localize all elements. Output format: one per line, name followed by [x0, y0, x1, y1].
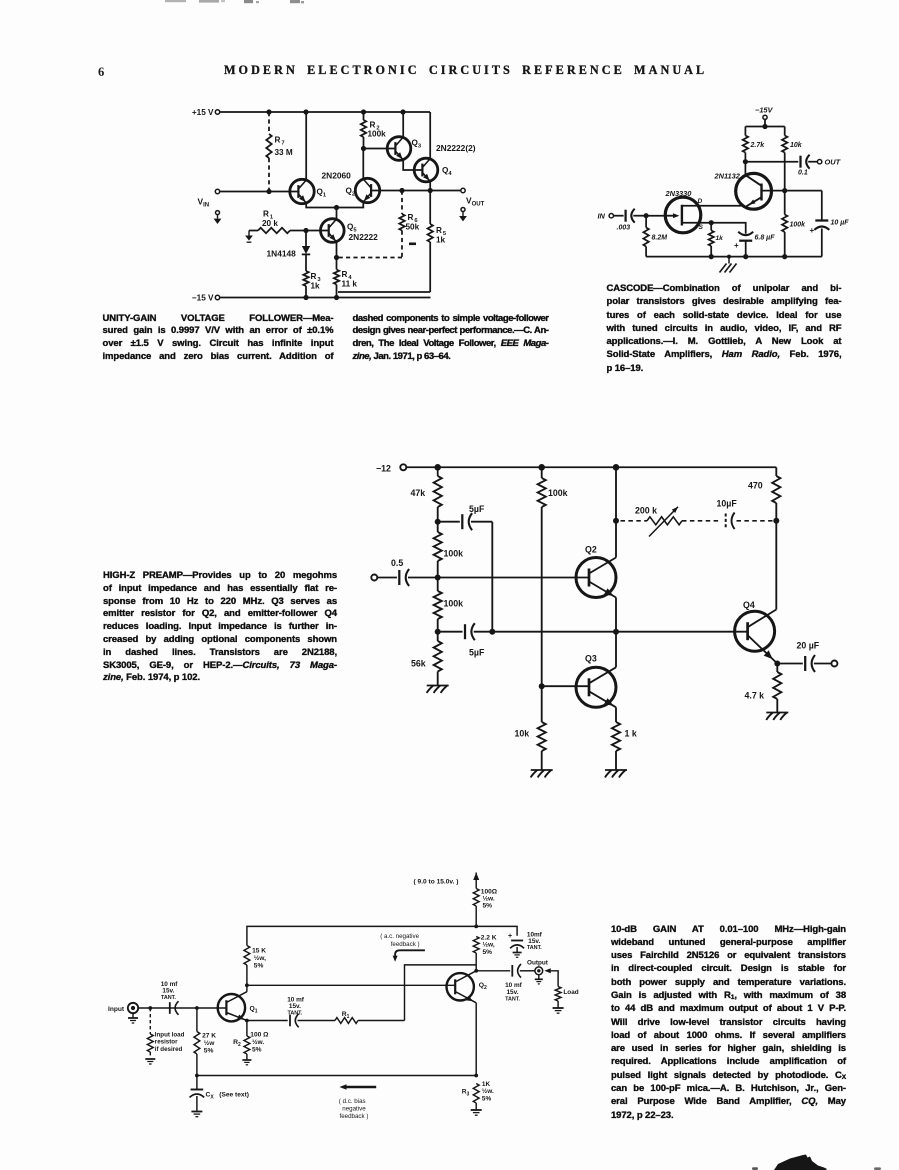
svg-text:100k: 100k	[548, 488, 568, 498]
svg-text:56k: 56k	[411, 659, 426, 669]
resistor 15K	[244, 946, 266, 986]
svg-text:R: R	[370, 121, 376, 130]
wire -12 top rail	[406, 466, 777, 468]
transistor Q4 preamp	[735, 610, 778, 664]
jack Input	[108, 1003, 138, 1013]
svg-text:Q4: Q4	[743, 600, 755, 610]
svg-text:1k: 1k	[436, 236, 446, 245]
wire 15K node down to Q1 collector	[246, 985, 248, 991]
svg-text:negative: negative	[342, 1105, 366, 1112]
wire ac feedback riser	[405, 965, 477, 1021]
svg-text:8.2M: 8.2M	[652, 235, 668, 242]
wire dashed R6 bottom to Q5 emitter	[337, 257, 403, 259]
svg-text:1k: 1k	[716, 235, 724, 242]
svg-text:470: 470	[748, 481, 763, 491]
svg-text:1N4148: 1N4148	[267, 249, 297, 259]
svg-text:TANT.: TANT.	[288, 1010, 303, 1016]
label -12 supply	[376, 464, 406, 474]
svg-text:2.2 K: 2.2 K	[481, 934, 497, 941]
svg-text:.003: .003	[617, 225, 631, 232]
svg-text:Load: Load	[563, 989, 578, 996]
svg-text:20 k: 20 k	[262, 219, 278, 228]
node base / 10k bottom	[782, 188, 787, 193]
resistor 100k upper divider	[434, 522, 464, 578]
ground reference below VOUT	[459, 208, 467, 222]
svg-text:10µF: 10µF	[717, 499, 738, 509]
node Q3 base	[539, 683, 545, 689]
wire Q2 collector to rail	[615, 467, 617, 521]
svg-text:5%: 5%	[483, 949, 493, 956]
svg-text:R: R	[342, 270, 348, 279]
resistor 470	[748, 467, 780, 521]
svg-text:TANT.: TANT.	[527, 945, 542, 951]
node divider top / 5uF	[435, 519, 441, 525]
svg-text:CX: CX	[206, 1091, 215, 1100]
svg-text:feedback ): feedback )	[340, 1113, 369, 1120]
wire Q4 emitter to output line	[429, 181, 431, 191]
wire 2N1132 base lead right	[762, 190, 785, 192]
svg-text:10 µF: 10 µF	[831, 220, 850, 227]
arrow into output jack	[544, 968, 558, 986]
wire Q4 collector to rail corner	[429, 112, 431, 159]
wire supply bus left	[247, 926, 476, 945]
wire collector node down to transistor	[744, 162, 746, 175]
wire R5 bottom to rail	[338, 291, 430, 293]
svg-text:Input: Input	[108, 1006, 125, 1013]
caption high-z preamp	[103, 570, 337, 685]
svg-text:Input load: Input load	[155, 1032, 185, 1039]
svg-text:S: S	[699, 224, 704, 231]
capacitor 6.8 uF	[734, 232, 775, 257]
svg-text:5%: 5%	[482, 1096, 492, 1103]
terminal VIN with label	[198, 189, 220, 208]
node collector / 2.7k bottom	[743, 159, 748, 164]
svg-text:R1: R1	[342, 1011, 350, 1020]
node Q1 collector rail	[303, 109, 308, 114]
svg-text:2N2222: 2N2222	[349, 232, 379, 242]
wire Q3 collector up to bus	[615, 632, 617, 668]
node 100k mid top	[538, 464, 545, 471]
svg-text:2N3330: 2N3330	[665, 189, 693, 198]
resistor 2.2K	[473, 934, 496, 971]
capacitor 10mf feedback	[247, 996, 335, 1027]
ground left of R1	[245, 231, 253, 243]
svg-text:100k: 100k	[444, 599, 464, 609]
wire +15V top rail	[220, 111, 430, 113]
ground under input jack	[128, 1013, 138, 1023]
node Q2 collector rail	[613, 464, 620, 471]
wire Q2 emitter down	[337, 203, 364, 208]
svg-text:Q2: Q2	[479, 982, 487, 991]
header title	[224, 63, 707, 78]
svg-text:100k: 100k	[368, 130, 387, 139]
svg-text:+: +	[734, 241, 739, 250]
svg-text:11 k: 11 k	[342, 280, 358, 289]
wire JFET source with label S	[682, 223, 711, 231]
wire Q2 emitter down to rail	[475, 1003, 477, 1076]
svg-text:100 Ω: 100 Ω	[250, 1031, 269, 1038]
svg-text:5µF: 5µF	[469, 504, 485, 514]
resistor R4 11k	[334, 258, 358, 298]
svg-text:½w.: ½w.	[482, 1087, 494, 1095]
wire JFET drain with label D	[682, 198, 742, 206]
wire Q1 emitter node	[245, 1019, 249, 1023]
svg-text:Output: Output	[527, 959, 549, 966]
svg-text:R: R	[311, 272, 317, 281]
caption unity-gain follower left column	[103, 313, 334, 364]
svg-text:20 µF: 20 µF	[797, 641, 820, 651]
ground under R2	[242, 1060, 251, 1065]
svg-text:(See text): (See text)	[219, 1091, 249, 1098]
capacitor 5uF lower	[438, 623, 493, 657]
svg-text:TANT.: TANT.	[505, 996, 520, 1002]
resistor R6 50k (dashed optional)	[399, 191, 419, 258]
resistor 8.2M	[643, 216, 667, 257]
svg-text:15v.: 15v.	[528, 938, 540, 945]
svg-text:( 9.0 to 15.0v. ): ( 9.0 to 15.0v. )	[414, 879, 459, 886]
ground under 10k	[531, 770, 553, 778]
svg-text:33 M: 33 M	[275, 148, 293, 157]
svg-text:D: D	[698, 198, 703, 205]
diode 1N4148	[267, 231, 311, 272]
node Q2 emitter bus	[613, 629, 619, 635]
terminal IN with label	[598, 211, 614, 220]
svg-text:4.7 k: 4.7 k	[745, 691, 765, 701]
svg-text:R: R	[408, 213, 414, 222]
resistor 47k	[411, 467, 442, 521]
resistor input load (dashed optional)	[145, 1008, 184, 1064]
resistor 10k	[515, 686, 546, 770]
svg-text:6.8 µF: 6.8 µF	[755, 235, 776, 242]
svg-text:Q3: Q3	[412, 139, 422, 150]
transistor Q1 (2N2060 half)	[290, 179, 314, 203]
capacitor 10mf bypass with ground	[508, 931, 543, 957]
wire base line to Q2	[247, 984, 455, 986]
node source / 1k	[709, 220, 714, 225]
transistor Q1 wideband	[218, 992, 247, 1022]
capacitor 10uF (dashed optional)	[682, 499, 773, 530]
capacitor 0.1 output	[798, 155, 817, 177]
svg-text:100k: 100k	[444, 549, 464, 559]
wire Q3 collector to rail	[402, 112, 404, 138]
node Q4 emitter	[774, 661, 780, 667]
label ac negative feedback with arrow	[380, 933, 425, 962]
svg-text:+: +	[508, 933, 512, 940]
svg-text:2.7k: 2.7k	[750, 142, 766, 149]
svg-text:5µF: 5µF	[469, 648, 485, 658]
page top scan marks	[165, 0, 304, 3]
svg-text:½w: ½w	[204, 1039, 215, 1047]
svg-text:2N1132: 2N1132	[714, 172, 741, 181]
resistor 10k	[782, 127, 803, 191]
ground under 4.7k	[766, 713, 788, 721]
wire -15V bottom rail	[220, 297, 431, 299]
svg-text:VIN: VIN	[198, 197, 210, 209]
node Q5 emitter / R4 / dashed	[334, 255, 339, 260]
node emitters join	[334, 205, 339, 210]
node R7 top	[266, 109, 271, 114]
svg-text:Q2: Q2	[346, 187, 356, 198]
ground under 1k	[605, 770, 627, 778]
node divider bottom	[435, 629, 441, 635]
node supply bus	[474, 925, 478, 929]
svg-text:if desired: if desired	[155, 1046, 183, 1053]
wire Q3 emitter to Q4 base	[403, 159, 422, 170]
node R2 top	[361, 109, 366, 114]
svg-text:5%: 5%	[254, 962, 264, 969]
ground under Load	[553, 1008, 564, 1013]
wire emitter bus to Q4 base	[492, 631, 748, 633]
svg-text:−15V: −15V	[755, 106, 774, 115]
svg-text:Q2: Q2	[585, 545, 597, 555]
ground under R3	[471, 1110, 482, 1115]
circuit 1 label +15 V supply	[192, 108, 220, 117]
wire cascode top rail	[745, 126, 784, 128]
svg-text:OUT: OUT	[825, 158, 842, 167]
svg-text:15v.: 15v.	[162, 988, 174, 995]
resistor R1 20k	[249, 210, 329, 234]
capacitor Cx with ground	[190, 1076, 249, 1117]
svg-text:½w.: ½w.	[252, 1038, 264, 1046]
svg-text:10k: 10k	[515, 729, 530, 739]
transistor Q3 preamp	[576, 667, 616, 707]
transistor JFET 2N3330	[665, 197, 701, 233]
svg-text:½w.: ½w.	[483, 895, 495, 903]
label -15 V supply	[192, 294, 220, 303]
capacitor 10mf output	[476, 964, 535, 1002]
svg-text:50k: 50k	[406, 223, 420, 232]
svg-text:R3: R3	[462, 1088, 470, 1097]
wire 5uF right leg down	[491, 522, 493, 632]
wire supply to rail	[764, 119, 766, 126]
resistor 100k lower divider	[434, 578, 464, 632]
transistor Q4 2N2222	[414, 158, 438, 182]
resistor 100k middle	[538, 467, 568, 686]
node 1k bottom	[709, 254, 714, 259]
node R2 bottom / Q3 base	[361, 146, 366, 151]
terminal input 0.5 capacitor	[371, 558, 589, 586]
wire input line	[138, 1007, 226, 1009]
svg-text:0.5: 0.5	[391, 558, 403, 568]
wire R2 node to Q3 base	[364, 148, 396, 150]
node Q2 collector / 200k dashed	[613, 518, 619, 524]
svg-text:( d.c. bias: ( d.c. bias	[339, 1098, 366, 1105]
svg-text:15v.: 15v.	[289, 1003, 301, 1010]
node R3 bottom	[303, 295, 308, 300]
wire Q2 emitter down	[615, 598, 617, 632]
svg-text:Q1: Q1	[317, 188, 327, 199]
svg-text:200 k: 200 k	[635, 506, 657, 516]
svg-text:10k: 10k	[790, 142, 803, 149]
svg-text:5%: 5%	[483, 903, 493, 910]
node 5uF lower right	[489, 629, 495, 635]
svg-text:0.1: 0.1	[798, 170, 808, 177]
svg-text:+: +	[810, 226, 815, 235]
resistor 1k cascode	[709, 223, 724, 257]
node supply rail	[762, 124, 767, 129]
resistor R2 100k	[361, 112, 386, 149]
resistor Load	[555, 987, 579, 1009]
capacitor .003 input	[614, 209, 647, 232]
label dc bias negative feedback with arrow	[339, 1084, 376, 1120]
svg-text:VOUT: VOUT	[466, 196, 485, 208]
svg-text:Q1: Q1	[250, 1006, 258, 1015]
caption 10-dB gain	[611, 923, 846, 1122]
node Q3 collector rail	[400, 109, 405, 114]
node 15K bottom / Q2 base line	[245, 983, 249, 987]
svg-text:27 K: 27 K	[202, 1032, 216, 1039]
svg-text:R2: R2	[233, 1039, 241, 1048]
node input / 8.2M	[644, 213, 649, 218]
ground reference below VIN	[214, 211, 222, 224]
wire Q2 collector up	[615, 521, 617, 558]
svg-text:TANT.: TANT.	[161, 995, 176, 1001]
scan artifact blob bottom right	[752, 1155, 881, 1170]
ground under 56k	[427, 686, 449, 694]
label -15V cascode supply	[755, 106, 774, 120]
ground under output jack	[535, 975, 543, 984]
capacitor 10 uF	[810, 191, 850, 257]
node R1 / diode junction	[303, 228, 308, 233]
wire cascode bottom rail	[646, 256, 822, 258]
svg-text:−12: −12	[376, 464, 391, 474]
svg-text:½w,: ½w,	[483, 941, 495, 949]
svg-text:R: R	[263, 210, 269, 219]
svg-text:1 k: 1 k	[625, 729, 637, 739]
capacitor 5uF upper	[438, 504, 493, 530]
wire 470 to Q4 collector	[775, 521, 777, 610]
wire dc feedback bottom rail	[197, 1075, 476, 1077]
svg-text:+15 V: +15 V	[192, 108, 214, 117]
svg-text:½w,: ½w,	[254, 954, 266, 962]
svg-text:2N2060: 2N2060	[322, 171, 352, 181]
transistor Q3 2N2222	[387, 137, 411, 161]
node 27K bottom rail	[195, 1074, 199, 1078]
resistor R7 33M (dashed optional)	[266, 112, 293, 192]
ground cascode hatched	[720, 255, 737, 273]
wire base node to 10uF branch	[785, 190, 822, 192]
svg-text:R: R	[275, 136, 281, 145]
svg-text:7: 7	[281, 141, 284, 147]
resistor 56k	[411, 632, 442, 686]
wire Q5 emitter down	[336, 241, 338, 257]
svg-text:IN: IN	[598, 211, 606, 220]
wire input node to gate	[646, 215, 665, 217]
node input load tap	[148, 1006, 152, 1010]
resistor 100 ohm supply	[473, 889, 498, 927]
resistor 27K	[194, 1008, 216, 1076]
header page number 6	[98, 65, 104, 80]
node 27K tap	[195, 1006, 199, 1010]
svg-text:1k: 1k	[311, 282, 321, 291]
svg-text:15 K: 15 K	[252, 947, 266, 954]
svg-text:resistor: resistor	[155, 1039, 178, 1046]
wire Q3 base lead	[542, 685, 590, 687]
resistor R3 1k	[303, 271, 321, 298]
svg-text:100k: 100k	[790, 222, 807, 229]
svg-text:−15 V: −15 V	[192, 294, 214, 303]
resistor R2 100 ohm	[233, 1021, 269, 1060]
jack Output	[527, 959, 549, 974]
svg-text:15v.: 15v.	[507, 989, 519, 996]
caption unity-gain follower right column	[353, 313, 549, 364]
wire source node to 6.8uF branch	[711, 223, 746, 234]
svg-text:( a.c. negative: ( a.c. negative	[380, 933, 419, 940]
svg-text:5%: 5%	[252, 1046, 262, 1053]
svg-text:100Ω: 100Ω	[481, 889, 498, 896]
wire Q1 collector to rail	[305, 112, 307, 180]
wire supply bus right to bypass	[476, 926, 517, 935]
transistor Q2 (2N2060 half, mirrored)	[355, 178, 379, 202]
svg-text:Q3: Q3	[585, 654, 597, 664]
capacitor 20uF output	[777, 641, 837, 673]
node 47k top	[434, 464, 441, 471]
node R4 bottom	[334, 295, 339, 300]
transistor 2N1132 PNP	[736, 173, 772, 209]
wire Q1 emitter down	[306, 203, 336, 208]
wire Q5 collector up to emitters node	[336, 208, 338, 220]
resistor 4.7k	[745, 664, 782, 713]
node input line divider	[435, 575, 441, 581]
svg-text:feedback ): feedback )	[391, 941, 420, 948]
wire output line Q2 base to VOUT	[371, 190, 461, 192]
terminal OUT	[817, 158, 841, 167]
supply arrow (9.0 to 15.0v.)	[414, 873, 480, 889]
svg-text:1K: 1K	[482, 1081, 491, 1088]
wire VIN to Q1 base	[220, 191, 299, 193]
node R7 bottom on VIN line	[266, 189, 271, 194]
node 6.8uF bottom	[743, 254, 748, 259]
capacitor 10mf input	[161, 981, 179, 1015]
resistor 100k cascode	[782, 191, 806, 257]
node 200k line right	[773, 518, 779, 524]
wire node to output cap	[745, 161, 798, 163]
transistor Q5 2N2222	[321, 219, 345, 243]
terminal VOUT with label	[461, 188, 485, 207]
potentiometer 200k (dashed optional)	[621, 506, 683, 537]
node Q4 emitter output	[428, 188, 433, 193]
resistor 2.7k	[743, 127, 766, 162]
resistor R3 1K	[462, 1081, 494, 1110]
svg-text:2N2222(2): 2N2222(2)	[436, 143, 476, 153]
node 100k bottom	[782, 254, 787, 259]
transistor Q2 preamp	[576, 558, 616, 598]
node R6 top on output line	[399, 188, 404, 193]
resistor R1 feedback	[335, 1011, 405, 1023]
svg-text:47k: 47k	[411, 488, 426, 498]
transistor Q2 wideband	[447, 971, 477, 1003]
caption cascode	[607, 282, 842, 375]
node Q2 collector output	[474, 969, 478, 973]
svg-text:Q4: Q4	[442, 166, 452, 177]
resistor 1k preamp	[612, 707, 637, 770]
svg-text:R: R	[436, 226, 442, 235]
resistor R5 1k	[428, 191, 447, 293]
svg-text:5%: 5%	[204, 1047, 214, 1054]
node Q2 emitter rail	[474, 1074, 478, 1078]
wire Q2 collector to R2 node	[362, 149, 364, 180]
